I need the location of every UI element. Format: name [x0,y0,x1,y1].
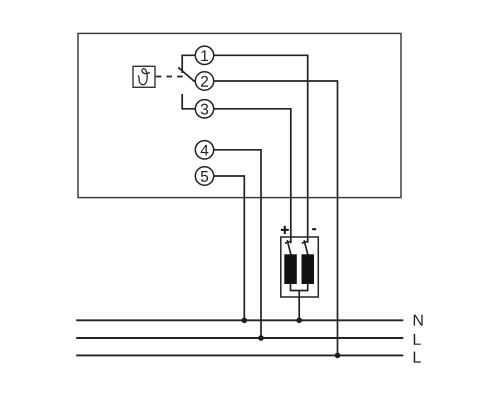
junction dot terminal2-L [335,353,341,359]
minus label [312,228,316,230]
left electrode contact arm [285,240,291,254]
junction dot terminal5-N [242,318,248,324]
electrode bottom join wire [291,284,308,291]
wire terminal 5 to N line [214,176,245,320]
load box to N wire [298,291,300,321]
label L middle [414,334,421,345]
wire terminal 4 to middle L line [214,150,261,338]
left electrode bar [284,254,297,284]
terminal circle 3 [195,100,213,118]
right electrode bar [302,254,315,284]
L line bottom [76,354,403,356]
label N [414,315,423,326]
wire terminal 2 to bottom L line [214,81,338,355]
L line middle [76,337,403,339]
load box outline [281,237,319,297]
device outline box [78,33,401,197]
junction dot load-N [296,318,302,324]
terminal circle 5 [195,167,213,185]
plus label [281,226,289,234]
junction dot terminal4-L [258,335,264,341]
terminal circle 2 [195,72,213,90]
switch moving arm (common, terminal 2) [178,67,195,81]
label L bottom [414,352,421,363]
switch fixed contact to terminal 3 [182,94,195,109]
switch fixed contact to terminal 1 [182,55,195,73]
terminal circle 1 [195,46,213,64]
right electrode contact arm [302,240,308,254]
terminal circle 4 [195,141,213,159]
temperature sensor box ϑ [133,66,155,87]
wire terminal 3 to plus electrode [214,109,291,243]
wire terminal 1 to minus electrode [214,55,308,243]
dashed actuator link [156,76,184,78]
N line [76,319,403,321]
